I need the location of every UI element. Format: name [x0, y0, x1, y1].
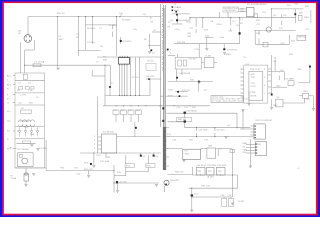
svg-text:SYS CON: SYS CON — [250, 69, 260, 71]
svg-text:EI-33: EI-33 — [174, 10, 180, 12]
svg-text:R35b: R35b — [304, 17, 310, 19]
svg-text:D10 SB560: D10 SB560 — [186, 111, 197, 113]
svg-text:GND: GND — [240, 11, 245, 13]
svg-text:TO SUB: TO SUB — [39, 148, 47, 150]
svg-text:CPU: CPU — [251, 83, 256, 85]
svg-text:R12 47K: R12 47K — [177, 42, 186, 44]
svg-text:CN2 TO DISPLAY: CN2 TO DISPLAY — [255, 119, 272, 122]
svg-text:STR: STR — [103, 60, 108, 62]
svg-text:For audio - final / dual OP /: For audio - final / dual OP / sht 1 — [212, 100, 243, 103]
svg-text:Q3 B1375: Q3 B1375 — [170, 180, 180, 182]
svg-text:REV A 2004: REV A 2004 — [225, 9, 237, 12]
svg-text:D1 RGP10: D1 RGP10 — [121, 41, 132, 43]
svg-text:C12a: C12a — [194, 49, 200, 51]
svg-text:PC1 817: PC1 817 — [189, 58, 198, 60]
svg-text:C8 2n2: C8 2n2 — [147, 61, 155, 63]
svg-text:CTRL: CTRL — [251, 86, 257, 88]
svg-text:L2 FIL: L2 FIL — [21, 94, 28, 96]
svg-text:C10a: C10a — [175, 29, 181, 31]
svg-text:R5 680K: R5 680K — [122, 20, 131, 22]
svg-text:REG 5V: REG 5V — [298, 37, 306, 39]
svg-text:R31 2.2K: R31 2.2K — [202, 185, 211, 187]
svg-text:IC3 SYSTEM RESET: IC3 SYSTEM RESET — [247, 4, 268, 6]
svg-text:1N47: 1N47 — [59, 39, 65, 41]
svg-text:22K: 22K — [188, 36, 192, 38]
svg-text:D7 EGP20: D7 EGP20 — [227, 49, 238, 51]
svg-text:X1 4MHz: X1 4MHz — [286, 79, 295, 81]
svg-text:ZNR: ZNR — [30, 134, 35, 136]
svg-text:MUTE: MUTE — [251, 96, 258, 98]
svg-text:R13a: R13a — [217, 24, 223, 26]
svg-text:R10 47K: R10 47K — [146, 76, 155, 78]
svg-text:D15 4148: D15 4148 — [100, 161, 110, 163]
svg-text:GND: GND — [243, 143, 248, 145]
svg-text:T2.5A: T2.5A — [10, 177, 16, 180]
svg-text:RY1 RELAY: RY1 RELAY — [18, 148, 30, 151]
svg-text:ZD 15V: ZD 15V — [120, 181, 128, 183]
svg-text:L2 CHOKE: L2 CHOKE — [19, 121, 30, 123]
svg-text:C14a: C14a — [219, 37, 225, 39]
svg-text:SDA: SDA — [243, 148, 248, 151]
svg-text:C34 3300: C34 3300 — [197, 165, 207, 167]
svg-text:+B 35V: +B 35V — [207, 177, 214, 179]
svg-text:R30 0.22: R30 0.22 — [175, 171, 184, 173]
svg-text:R18b: R18b — [168, 96, 174, 98]
svg-text:D8 1N4148: D8 1N4148 — [180, 73, 191, 75]
svg-text:R11a: R11a — [186, 22, 192, 24]
svg-text:PWR: PWR — [251, 92, 256, 94]
svg-text:R17 220: R17 220 — [182, 90, 191, 92]
svg-text:R25 4.7K: R25 4.7K — [84, 169, 93, 171]
svg-text:TRANS: TRANS — [174, 6, 182, 9]
svg-text:+5V: +5V — [273, 61, 277, 63]
svg-text:GND: GND — [273, 105, 278, 107]
svg-text:C2 100n: C2 100n — [87, 42, 96, 44]
svg-text:C5 100n: C5 100n — [109, 25, 118, 27]
svg-text:uPD: uPD — [251, 74, 256, 76]
svg-text:AC: AC — [10, 147, 13, 150]
svg-text:GND1: GND1 — [226, 54, 233, 56]
svg-text:5V SB: 5V SB — [238, 201, 245, 203]
svg-text:TL431: TL431 — [205, 56, 212, 58]
svg-text:R3 560K: R3 560K — [87, 28, 96, 30]
svg-text:C17 470: C17 470 — [217, 130, 226, 132]
svg-text:IC2 MC494: IC2 MC494 — [103, 131, 114, 133]
svg-text:FER 104: FER 104 — [178, 119, 187, 121]
svg-text:F1 T3.15A: F1 T3.15A — [35, 61, 45, 64]
svg-text:C35 3300: C35 3300 — [207, 165, 217, 167]
svg-text:C36 3300: C36 3300 — [217, 165, 227, 167]
svg-text:C16 1000: C16 1000 — [199, 130, 209, 132]
svg-text:VO: VO — [240, 23, 243, 25]
